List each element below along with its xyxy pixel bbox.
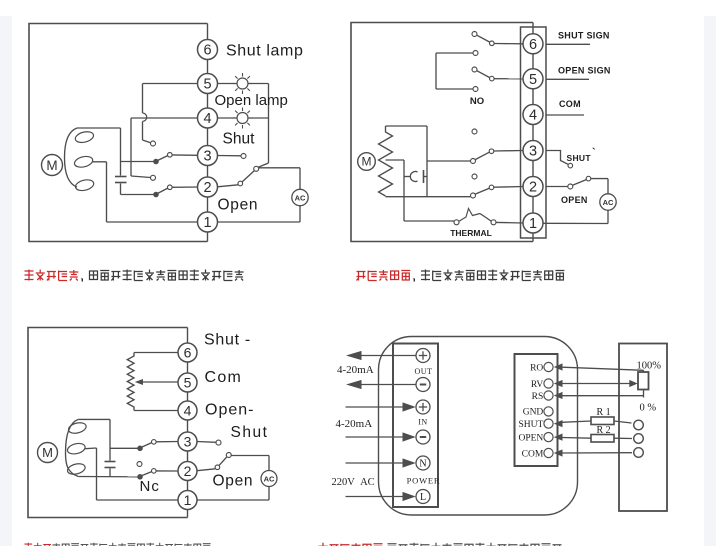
svg-text:RV: RV [531, 380, 544, 390]
svg-text:Open: Open [213, 473, 254, 490]
svg-text:3: 3 [203, 149, 211, 165]
svg-text:Shut: Shut [231, 424, 269, 441]
svg-text:M: M [42, 445, 53, 460]
svg-text:Nc: Nc [140, 478, 160, 495]
svg-text:IN: IN [418, 418, 427, 427]
svg-text:OUT: OUT [415, 367, 433, 376]
svg-text:POWER: POWER [407, 476, 441, 486]
svg-text:COM: COM [559, 99, 581, 109]
svg-text:M: M [46, 158, 57, 173]
svg-text:SHUT: SHUT [567, 153, 592, 163]
svg-text:3: 3 [184, 434, 192, 450]
svg-text:6: 6 [529, 37, 537, 53]
svg-text:Shut -: Shut - [204, 332, 251, 349]
svg-text:4-20mA: 4-20mA [337, 364, 374, 376]
svg-text:2: 2 [203, 180, 211, 196]
svg-text:1: 1 [529, 216, 537, 232]
svg-text:NO: NO [470, 96, 484, 107]
svg-text:AC: AC [603, 198, 614, 207]
svg-text:N: N [419, 459, 426, 470]
svg-text:Shut lamp: Shut lamp [226, 43, 303, 60]
svg-text:L: L [420, 492, 426, 503]
svg-text:SHUT: SHUT [518, 420, 543, 430]
svg-text:Open-: Open- [205, 402, 254, 419]
svg-text:Open lamp: Open lamp [215, 92, 288, 109]
svg-text:2: 2 [184, 463, 192, 479]
svg-text:2: 2 [529, 180, 537, 196]
svg-text:OPEN: OPEN [518, 433, 543, 443]
svg-text:220V AC: 220V AC [332, 477, 375, 488]
svg-text:5: 5 [184, 375, 192, 391]
svg-text:6: 6 [203, 43, 211, 59]
svg-text:R 1: R 1 [597, 407, 611, 418]
svg-text:AC: AC [264, 474, 275, 483]
svg-text:AC: AC [295, 193, 306, 202]
svg-text:M: M [362, 155, 372, 169]
svg-text:GND: GND [523, 408, 544, 418]
svg-text:1: 1 [184, 492, 192, 508]
svg-text:4: 4 [203, 111, 211, 127]
svg-text:THERMAL: THERMAL [450, 228, 492, 238]
svg-text:OPEN SIGN: OPEN SIGN [558, 66, 611, 76]
svg-text:4: 4 [184, 403, 192, 419]
svg-text:1: 1 [203, 215, 211, 231]
svg-text:5: 5 [203, 77, 211, 93]
svg-text:`: ` [592, 147, 596, 159]
svg-text:Com: Com [205, 369, 243, 386]
svg-text:0 %: 0 % [640, 403, 657, 414]
svg-text:3: 3 [529, 144, 537, 160]
svg-text:COM: COM [522, 449, 544, 459]
svg-text:4: 4 [529, 108, 537, 124]
svg-text:OPEN: OPEN [561, 195, 588, 205]
svg-text:Open: Open [218, 197, 259, 214]
svg-text:6: 6 [184, 345, 192, 361]
svg-text:4-20mA: 4-20mA [336, 418, 373, 430]
svg-text:SHUT SIGN: SHUT SIGN [558, 31, 610, 41]
svg-text:R 2: R 2 [597, 425, 611, 436]
svg-text:5: 5 [529, 72, 537, 88]
svg-text:RS: RS [532, 392, 544, 402]
svg-text:RO: RO [530, 363, 543, 373]
svg-text:Shut: Shut [223, 131, 256, 148]
